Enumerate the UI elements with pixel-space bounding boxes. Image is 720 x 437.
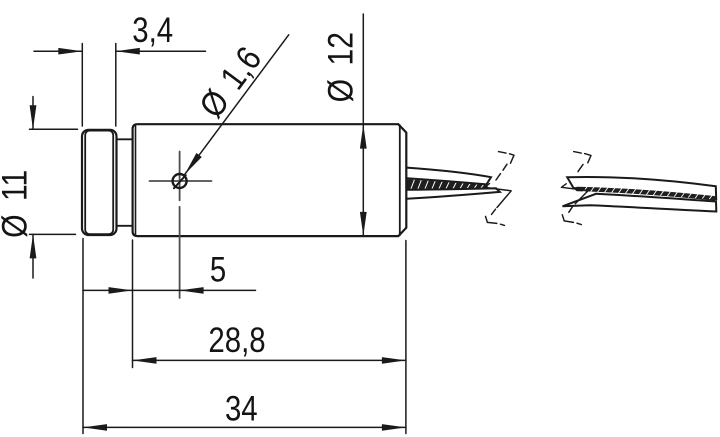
svg-text:5: 5 xyxy=(210,250,226,289)
svg-text:3,4: 3,4 xyxy=(132,11,173,50)
svg-text:34: 34 xyxy=(225,389,258,428)
svg-text:28,8: 28,8 xyxy=(208,321,265,360)
